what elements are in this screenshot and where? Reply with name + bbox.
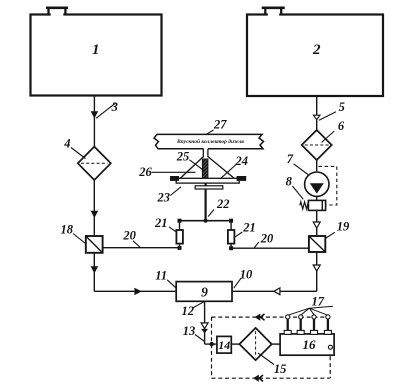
svg-text:2: 2 (312, 42, 321, 58)
svg-text:21: 21 (242, 220, 256, 234)
svg-text:23: 23 (157, 190, 171, 204)
svg-text:25: 25 (176, 149, 190, 163)
svg-text:20: 20 (260, 232, 274, 246)
svg-text:24: 24 (235, 154, 249, 168)
svg-text:14: 14 (218, 338, 230, 352)
svg-text:3: 3 (111, 100, 118, 114)
svg-text:13: 13 (183, 324, 196, 338)
svg-text:22: 22 (216, 197, 230, 211)
svg-text:6: 6 (338, 119, 345, 133)
svg-text:17: 17 (311, 295, 324, 309)
svg-text:5: 5 (339, 100, 345, 114)
svg-text:18: 18 (60, 223, 73, 237)
svg-text:20: 20 (122, 229, 136, 243)
svg-text:7: 7 (287, 152, 294, 166)
svg-text:4: 4 (63, 136, 70, 150)
svg-text:11: 11 (155, 269, 167, 283)
svg-text:12: 12 (182, 304, 195, 318)
svg-text:10: 10 (240, 267, 253, 281)
svg-text:15: 15 (274, 362, 287, 376)
svg-text:16: 16 (303, 337, 317, 352)
svg-text:21: 21 (154, 216, 168, 230)
svg-text:1: 1 (92, 42, 100, 58)
svg-text:27: 27 (213, 117, 227, 131)
svg-text:8: 8 (286, 174, 293, 188)
svg-text:9: 9 (201, 285, 208, 300)
svg-text:Впускной коллектор дизеля: Впускной коллектор дизеля (176, 138, 244, 145)
svg-text:26: 26 (138, 165, 152, 179)
svg-text:19: 19 (337, 220, 350, 234)
